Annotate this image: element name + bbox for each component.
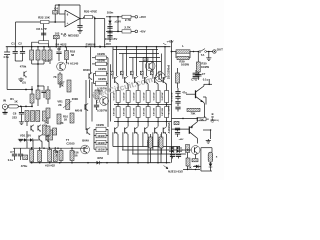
resistor mid col <box>47 86 49 90</box>
svg-text:D600: D600 <box>83 68 90 72</box>
resistor row2 a <box>25 111 29 122</box>
svg-text:1K: 1K <box>64 118 67 122</box>
svg-text:10/2W: 10/2W <box>97 142 105 145</box>
resistor R14 7K <box>57 114 61 124</box>
transistor T5b <box>45 135 47 140</box>
svg-text:CN43 H: CN43 H <box>211 113 215 123</box>
resistor 70K a <box>187 108 200 111</box>
wire diff to column <box>37 70 39 86</box>
wire op-amp output <box>80 18 84 20</box>
resistor R26 <box>95 90 99 99</box>
svg-text:70K: 70K <box>191 112 196 116</box>
svg-text:R20 470E: R20 470E <box>84 10 97 14</box>
wire pnp collector drop 4 <box>147 134 149 163</box>
resistor right col e <box>43 125 47 135</box>
svg-text:O. 33/7W: O. 33/7W <box>168 106 170 115</box>
node join mid <box>32 63 44 65</box>
wire to -45V term <box>131 30 135 32</box>
resistor 10/2W b <box>96 62 107 65</box>
svg-text:EMB08: EMB08 <box>86 42 96 46</box>
transistor 2SA1943 #6 <box>162 128 164 134</box>
svg-text:100n: 100n <box>107 11 114 15</box>
wire bus diode join <box>99 162 102 164</box>
svg-text:0.47/5W: 0.47/5W <box>112 108 115 116</box>
arrow -45V <box>164 166 169 169</box>
resistor 0.47 5W lower #5 <box>157 105 159 107</box>
resistor 10/2W a <box>96 56 107 59</box>
node input join <box>31 106 33 108</box>
transistor 2SA1943 #2 <box>124 128 126 134</box>
diode bias lower <box>196 165 199 169</box>
wire left border <box>6 47 8 52</box>
resistor 10/2W stack d <box>96 147 106 151</box>
capacitor under diodes a <box>170 155 175 157</box>
transistor T4 A1145 <box>59 64 61 69</box>
capacitor bl box <box>23 155 28 160</box>
svg-text:1K: 1K <box>188 166 191 169</box>
svg-text:10/2W: 10/2W <box>98 67 106 71</box>
svg-text:0.47/5W: 0.47/5W <box>161 93 164 101</box>
wire to +45V term <box>131 16 135 18</box>
transistor T driver small <box>102 98 104 103</box>
resistor R10 1K <box>70 113 74 123</box>
resistor 10/2W stack b <box>96 133 106 137</box>
transistor 2SC5200 #6 <box>162 77 164 83</box>
resistor 10/2W d <box>96 81 107 86</box>
resistor R22 15K <box>41 20 50 23</box>
wire collector drop 2 <box>126 47 128 75</box>
capacitor under diodes b <box>176 155 181 157</box>
transistor T7 <box>83 147 85 152</box>
svg-text:VR1: VR1 <box>57 100 63 104</box>
transistor 2SA1943 #3 <box>134 128 136 134</box>
svg-text:L: L <box>182 44 184 48</box>
resistor R col b <box>37 47 39 50</box>
resistor 10/2W stack c <box>96 140 106 144</box>
diode pair a <box>169 147 171 149</box>
resistor 0.47 5W #3 <box>137 84 139 91</box>
wire T2 base <box>26 122 28 127</box>
capacitor under op-amp <box>79 19 81 26</box>
wire base rail 2 <box>119 53 159 55</box>
svg-text:3#2: 3#2 <box>44 121 49 124</box>
transistor 2SC5200 #1 <box>114 77 116 83</box>
svg-text:C. K: C. K <box>61 32 67 36</box>
svg-text:0.1u: 0.1u <box>8 158 14 162</box>
wire op-amp noninv input <box>16 21 41 23</box>
resistor mid col3 <box>46 126 50 136</box>
capacitor rs d <box>175 107 180 109</box>
resistor 0.47 5W lower #3 <box>137 105 139 107</box>
svg-text:2K: 2K <box>58 103 61 107</box>
wire drop x94.8 <box>94 19 96 47</box>
capacitor C4 <box>53 11 58 14</box>
transistor 2SA1943 #1 <box>114 128 116 134</box>
diode VD2 <box>27 139 30 141</box>
svg-text:C2105: C2105 <box>66 142 75 146</box>
ground under op-amp <box>77 31 82 34</box>
svg-text:-45V: -45V <box>139 30 145 34</box>
capacitor C9 100n <box>58 47 60 51</box>
wire NPN big emitter trunk <box>203 103 206 104</box>
resistor 0.47 5W #1 <box>117 84 119 91</box>
wire bottom pair leads <box>150 134 152 137</box>
transistor driver PNP big <box>188 126 190 133</box>
capacitor C6 223 <box>21 106 23 112</box>
svg-text:2K: 2K <box>60 84 63 88</box>
resistor 10/2W stack a <box>96 127 106 131</box>
ground at OUT <box>206 58 211 61</box>
svg-text:VR: VR <box>55 150 59 154</box>
resistor 0.47 5W #2 <box>127 84 129 91</box>
terminal OUT <box>213 50 216 53</box>
capacitor pnp cluster b <box>175 132 180 134</box>
switch 7A <box>199 51 201 53</box>
wire caps bottom join <box>15 60 22 62</box>
svg-text:7K: 7K <box>60 121 63 125</box>
capacitor right top <box>193 73 200 75</box>
svg-text:C.: C. <box>96 100 99 104</box>
diode under fuse <box>209 164 213 168</box>
diode D on bus <box>97 161 100 165</box>
resistor R30 <box>197 52 199 63</box>
resistor 10/2W c <box>96 71 107 76</box>
bus -45V bottom <box>30 162 171 164</box>
resistor bl 3 <box>48 150 52 162</box>
transistor T5 D600 <box>88 73 90 78</box>
capacitor 100u c <box>107 35 112 37</box>
transistor 2SC5200 #5 <box>154 77 156 83</box>
wire right bottom links <box>203 129 211 131</box>
resistor bottom pair b <box>159 137 163 148</box>
wire pnp collector drop 1 <box>117 134 119 163</box>
capacitor rs a <box>177 88 179 91</box>
svg-text:10/2W: 10/2W <box>201 65 209 69</box>
svg-text:10/2W: 10/2W <box>98 77 106 81</box>
svg-text:0.47/5W: 0.47/5W <box>161 108 164 116</box>
svg-text:68: 68 <box>71 53 75 57</box>
resistor R5 <box>37 86 39 90</box>
resistor R18 68 <box>66 47 68 51</box>
svg-text:223: 223 <box>12 115 17 119</box>
svg-text:N4148: N4148 <box>75 110 83 113</box>
ground VD1 <box>18 139 23 142</box>
resistor R col a <box>31 47 33 50</box>
svg-text:100u/15V: 100u/15V <box>105 37 118 41</box>
wire base rail 1 <box>113 49 158 51</box>
svg-text:(5): (5) <box>22 81 25 85</box>
transistor T5a <box>38 135 40 140</box>
ground C6 <box>21 119 23 122</box>
svg-text:IN: IN <box>3 98 6 102</box>
ground above fuse <box>206 141 211 144</box>
capacitor C10 <box>96 100 98 105</box>
wire bias row <box>13 147 88 149</box>
junction dots bias <box>187 169 188 170</box>
svg-text:0.47/5W: 0.47/5W <box>122 93 125 101</box>
wire collector drop 3 <box>136 47 138 75</box>
wire base risers <box>112 50 114 79</box>
transistor T6 <box>86 128 88 133</box>
wire collector drop 1 <box>116 47 118 75</box>
resistor 0.47 5W lower #2 <box>127 105 129 107</box>
resistor R6 above bus <box>39 41 49 44</box>
svg-text:+45V: +45V <box>179 138 185 141</box>
wire PNP big collector down <box>197 138 199 143</box>
wire center col a <box>85 80 87 108</box>
bus +45V top <box>6 46 171 48</box>
wire bl stubs <box>31 148 33 149</box>
wire under R22 drop <box>43 24 45 41</box>
resistor R col c <box>43 47 45 50</box>
wire base rail pnp 3 <box>132 153 186 155</box>
wire PNP big emitter up <box>197 118 199 121</box>
svg-text:10/2W: 10/2W <box>97 58 105 62</box>
svg-text:C8 4.7P: C8 4.7P <box>36 27 47 31</box>
svg-text:470u: 470u <box>21 164 28 168</box>
resistor 0.47 5W lower #4 <box>147 105 149 107</box>
wire switch to OUT <box>207 51 213 53</box>
wire to diff pair <box>7 89 32 91</box>
svg-text:R22 15K: R22 15K <box>38 16 51 20</box>
wire OUT gnd drop <box>208 52 210 58</box>
junction dots on bus <box>15 46 17 48</box>
transistor 2SA1943 #4 <box>144 128 146 134</box>
svg-text:56: 56 <box>75 154 78 158</box>
transistor driver NPN big <box>195 90 197 98</box>
svg-text:0.47/5W: 0.47/5W <box>112 93 115 101</box>
wire base rail pnp 1 <box>113 146 180 148</box>
terminal IN jack <box>2 104 7 109</box>
resistor br a <box>186 158 190 166</box>
transistor 2SC5200 #3 <box>134 77 136 83</box>
wire R6 left lead <box>32 42 39 47</box>
op-amp U1 NE5532 <box>65 10 80 27</box>
svg-text:0.47/5W: 0.47/5W <box>132 108 135 116</box>
bus pnp emitter rail <box>114 121 172 123</box>
wire pnp collector drop 2 <box>127 134 129 163</box>
svg-text:0.33/7W: 0.33/7W <box>97 108 107 112</box>
svg-text:R4 4022: R4 4022 <box>56 42 67 46</box>
svg-text:VD1 15V: VD1 15V <box>20 133 31 137</box>
resistor 0.47 5W #6 <box>166 84 168 91</box>
resistor R12 7K <box>59 72 61 74</box>
bus arrow +45V <box>98 46 101 48</box>
resistor bias 1K <box>186 145 190 153</box>
wire output to rails <box>93 16 95 18</box>
wire R6 right lead <box>48 44 50 47</box>
svg-text:C1: C1 <box>11 42 15 46</box>
wire NPN big collector top <box>204 83 212 85</box>
transistor T2b <box>37 126 39 131</box>
capacitor rs c <box>175 102 180 104</box>
wire 10/2W stack leads <box>94 128 96 130</box>
svg-text:0.47/5W: 0.47/5W <box>152 108 155 116</box>
wire pnp base rail upper <box>172 117 198 119</box>
resistor pnp left <box>174 121 179 124</box>
wire collector drop 4 <box>146 47 148 75</box>
wire driver links <box>206 118 209 120</box>
svg-text:+45V: +45V <box>166 40 173 44</box>
wire mid vertical a <box>107 58 109 127</box>
wire base rail 4 <box>139 61 161 63</box>
transistor T3 <box>84 104 86 109</box>
capacitor 4.7u on border <box>4 52 10 55</box>
wire pnp collector drop 5 <box>157 134 159 163</box>
terminal +45V <box>135 15 138 18</box>
resistor row2 b <box>31 111 35 122</box>
svg-text:C4: C4 <box>54 6 58 10</box>
svg-text:4052: 4052 <box>97 156 103 160</box>
resistor bl 2 <box>38 151 42 162</box>
resistor 0.47 5W lower #6 <box>166 105 168 107</box>
svg-text:1K: 1K <box>14 100 18 104</box>
resistor col g <box>53 128 57 135</box>
svg-text:0.4/5W: 0.4/5W <box>146 140 149 146</box>
junction blob <box>31 89 33 91</box>
capacitor C7 <box>43 86 45 90</box>
svg-text:0.47/5W: 0.47/5W <box>132 93 135 101</box>
wire R1 to node <box>18 105 32 107</box>
wire rail -15V <box>106 30 122 32</box>
wire output to L <box>172 51 177 53</box>
resistor row2 c <box>36 111 40 122</box>
capacitor pnp cluster a <box>175 128 180 130</box>
svg-text:7A: 7A <box>201 53 205 57</box>
transistor T1 <box>23 72 25 77</box>
resistor br b <box>192 159 198 162</box>
resistor bl 4 <box>53 151 57 162</box>
capacitor 100u b <box>107 31 112 33</box>
transistor 2SC5200 #4 <box>144 77 146 83</box>
resistor 0.47 5W lower #1 <box>117 105 119 107</box>
svg-text:10/2W: 10/2W <box>97 149 105 152</box>
svg-text:MJE15-03/2: MJE15-03/2 <box>168 170 183 174</box>
capacitor C8 103 <box>53 35 59 38</box>
wire mid vertical b <box>110 64 112 121</box>
wire C4 leads <box>54 5 56 11</box>
svg-text:103: 103 <box>55 31 60 35</box>
wire center col b <box>89 80 91 99</box>
wire pnp base risers <box>112 132 114 146</box>
svg-text:7K: 7K <box>53 75 56 79</box>
wire base rail pnp 2 <box>122 149 183 151</box>
wire rail +15V <box>106 16 122 18</box>
resistor 2.7K top <box>122 15 131 18</box>
diode pair b <box>169 150 171 152</box>
svg-text:D. 10/7W: D. 10/7W <box>171 93 173 102</box>
resistor row2 d <box>43 111 47 121</box>
svg-text:0.47/5W: 0.47/5W <box>122 108 125 116</box>
svg-text:B649: B649 <box>82 138 89 142</box>
svg-text:470k: 470k <box>20 64 27 68</box>
wire collector drop 5 <box>156 47 158 75</box>
ground T1 <box>20 78 22 79</box>
svg-text:C9: C9 <box>57 47 61 51</box>
svg-text:75K: 75K <box>199 118 204 121</box>
capacitor C2 <box>22 47 24 51</box>
svg-text:#10 #32: #10 #32 <box>45 163 55 167</box>
resistor R20 470E <box>85 15 93 18</box>
terminal -45V <box>135 30 138 33</box>
resistor bl 1 <box>30 150 34 162</box>
ground under IN <box>4 109 6 112</box>
resistor R17 2K <box>67 80 71 92</box>
wire drop x104.7 <box>104 19 106 47</box>
svg-text:0.4/5W: 0.4/5W <box>157 140 160 146</box>
svg-text:C2: C2 <box>18 42 22 46</box>
wire base rail 3 <box>129 57 160 59</box>
resistor bottom pair a <box>149 137 153 148</box>
transistor driver T8 <box>148 63 150 69</box>
transistor bias servo <box>194 147 196 152</box>
wire pnp collector drop 6 <box>166 134 168 163</box>
bus output rail <box>114 104 172 106</box>
wire bias links <box>187 153 189 159</box>
wire center col c <box>91 82 93 122</box>
trimmer VR2 <box>59 151 63 161</box>
svg-text:C?: C? <box>10 150 14 154</box>
svg-text:2SC5200x6: 2SC5200x6 <box>166 64 170 79</box>
svg-text:C?: C? <box>202 72 206 76</box>
inductor L <box>176 50 190 53</box>
resistor R3 <box>30 94 34 103</box>
wire driver col <box>203 96 206 98</box>
diode VD1 <box>19 139 24 141</box>
wire L to switch <box>190 51 199 53</box>
svg-text:T4 A1145: T4 A1145 <box>66 62 79 66</box>
svg-text:+45V: +45V <box>104 42 111 46</box>
transistor T2a <box>30 126 32 131</box>
capacitor rs b <box>175 97 180 99</box>
zener VD 15V column <box>109 17 111 42</box>
wire feedback top <box>55 4 80 6</box>
resistor 2.7K bottom <box>122 30 131 33</box>
resistor 0.47 5W #5 <box>157 84 159 91</box>
svg-text:10/2W: 10/2W <box>97 135 105 138</box>
bus right arrow +45V <box>163 43 166 44</box>
fuse F1 <box>208 152 213 162</box>
resistor R29 parallel <box>175 52 177 59</box>
wire 10/2W leads <box>92 57 96 59</box>
wire second column <box>117 17 119 32</box>
svg-text:4.7u: 4.7u <box>3 55 9 59</box>
svg-text:10/2W: 10/2W <box>96 123 104 127</box>
resistor R16 56 <box>70 151 74 161</box>
wire left drop to bus <box>15 22 17 47</box>
svg-text:2.7K: 2.7K <box>124 26 131 30</box>
transistor driver T9 <box>158 74 160 80</box>
wire fuse loop bottom <box>201 170 212 172</box>
wire bias stubs up <box>26 142 28 149</box>
wire pnp collector drop 3 <box>137 134 139 163</box>
wire inv input <box>58 5 60 14</box>
resistor R col d <box>49 47 51 50</box>
capacitor bl b <box>20 148 22 153</box>
resistor 75K b <box>197 117 206 120</box>
svg-text:OUT: OUT <box>217 47 223 51</box>
svg-text:+45V: +45V <box>139 15 146 19</box>
capacitor 100u a <box>107 27 112 29</box>
wire VR2 R16 tops <box>60 148 62 150</box>
svg-text:+: + <box>67 21 69 25</box>
wire collector drop 6 <box>164 47 166 75</box>
wire right rail <box>171 40 173 163</box>
capacitor 0.1u zobel <box>197 72 199 74</box>
transistor 2SC5200 #2 <box>124 77 126 83</box>
capacitor C1 <box>14 47 16 51</box>
resistor right col f <box>48 130 53 140</box>
